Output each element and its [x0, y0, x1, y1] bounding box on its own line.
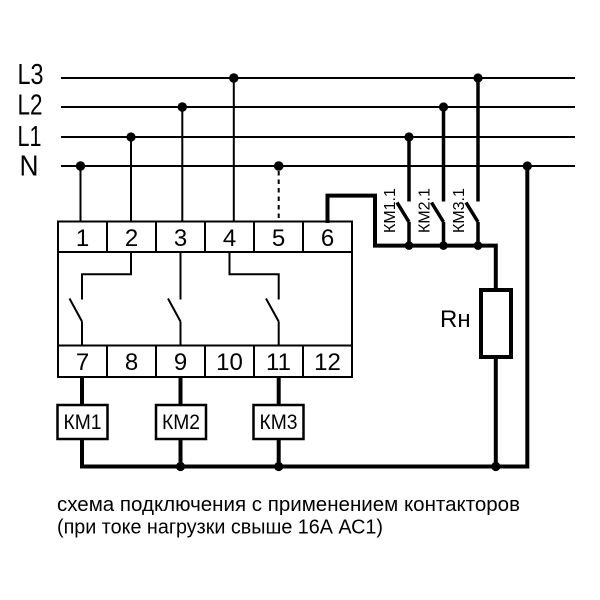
svg-text:Rн: Rн: [440, 306, 471, 333]
svg-text:8: 8: [125, 349, 138, 376]
svg-text:N: N: [20, 151, 39, 183]
svg-text:L2: L2: [18, 90, 43, 122]
svg-text:КМ1: КМ1: [64, 411, 102, 434]
svg-text:12: 12: [314, 349, 341, 376]
svg-text:2: 2: [125, 225, 138, 252]
svg-text:КМ3: КМ3: [260, 411, 298, 434]
svg-text:КМ2: КМ2: [162, 411, 200, 434]
svg-text:L3: L3: [18, 59, 44, 91]
svg-text:L1: L1: [18, 121, 42, 153]
svg-text:(при токе нагрузки свыше 16А А: (при токе нагрузки свыше 16А АС1): [57, 517, 383, 539]
svg-text:КМ2.1: КМ2.1: [417, 188, 434, 233]
svg-text:3: 3: [174, 225, 187, 252]
svg-text:4: 4: [223, 225, 236, 252]
svg-text:7: 7: [76, 349, 89, 376]
svg-text:5: 5: [272, 225, 285, 252]
svg-text:9: 9: [174, 349, 187, 376]
svg-text:схема подключения с применение: схема подключения с применением контакто…: [57, 494, 520, 516]
svg-text:КМ3.1: КМ3.1: [451, 188, 468, 233]
svg-text:11: 11: [266, 349, 291, 376]
svg-text:6: 6: [321, 225, 334, 252]
svg-text:1: 1: [76, 225, 89, 252]
svg-text:10: 10: [216, 349, 243, 376]
svg-text:КМ1.1: КМ1.1: [382, 188, 399, 233]
